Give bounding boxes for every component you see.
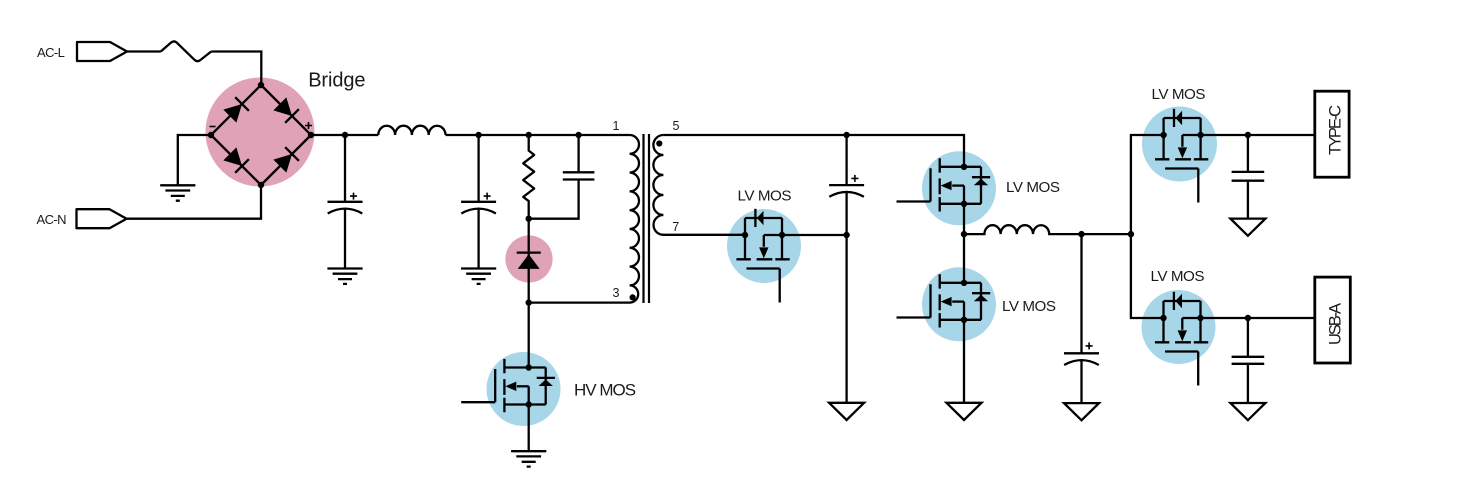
- svg-text:3: 3: [613, 286, 620, 300]
- wire rail to transformer pin 1: [446, 134, 630, 136]
- node USB-A cap: [1245, 315, 1251, 321]
- svg-text:HV MOS: HV MOS: [574, 380, 636, 399]
- node C4/sync source: [843, 232, 849, 238]
- transistor Q4 LV MOS (buck low side): [897, 274, 991, 327]
- svg-text:7: 7: [672, 220, 679, 234]
- wire bridge minus to ground: [178, 135, 211, 185]
- wire buck output cap: [1080, 234, 1082, 353]
- capacitor C3 (snubber): [529, 135, 595, 219]
- svg-text:AC-N: AC-N: [37, 212, 67, 227]
- node rail/C1: [342, 132, 348, 138]
- wire rail to C1: [344, 135, 346, 202]
- C4 plus mark: [851, 175, 858, 182]
- bridge plus mark: [305, 122, 312, 129]
- connector TYPE-C box: [1315, 91, 1349, 177]
- node Vout/output cap: [843, 132, 849, 138]
- node rail/C2: [475, 132, 481, 138]
- bridge node plus (right): [308, 132, 314, 138]
- inductor L2 (buck): [964, 225, 1131, 234]
- node rail/C3: [575, 132, 581, 138]
- TYPE-C load-switch LV MOSFET highlight circle: [1142, 107, 1217, 182]
- transformer secondary winding (pins 5-7): [653, 135, 745, 235]
- C1 plus mark: [350, 193, 357, 200]
- wire buck low side source to ground: [963, 320, 965, 403]
- transformer secondary phasing dot: [656, 140, 662, 146]
- node rail/R1: [526, 132, 532, 138]
- ground (triangle) under buck low side: [947, 403, 982, 420]
- bridge diode D4 (bottom node to right node): [273, 147, 299, 173]
- buck high-side LV MOSFET highlight circle: [922, 151, 996, 225]
- fuse F1: [161, 41, 211, 61]
- node clamp/transformer/HV-MOS: [526, 299, 532, 305]
- node TYPE-C cap: [1245, 132, 1251, 138]
- svg-text:LV MOS: LV MOS: [1006, 179, 1060, 196]
- capacitor C6 (TYPE-C): [1232, 135, 1265, 219]
- wire sync MOSFET to secondary ground node: [782, 234, 847, 236]
- wire C1 to ground: [344, 209, 346, 269]
- transformer primary winding (pins 1-3): [529, 135, 639, 303]
- sync-rect LV MOSFET highlight circle: [727, 209, 801, 283]
- svg-text:TYPE-C: TYPE-C: [1326, 105, 1344, 155]
- svg-text:LV MOS: LV MOS: [1152, 86, 1206, 103]
- svg-text:USB-A: USB-A: [1326, 303, 1344, 345]
- clamp diode highlight circle: [505, 235, 552, 282]
- wire rail to C2: [477, 135, 479, 202]
- bridge rectifier highlight circle: [206, 78, 315, 187]
- wire HV MOSFET source to ground: [528, 405, 530, 452]
- ground (triangle) under C5: [1064, 403, 1099, 420]
- ground (triangle) under C6: [1230, 219, 1265, 236]
- svg-text:LV MOS: LV MOS: [1002, 298, 1056, 315]
- wire TYPE-C rail: [1201, 134, 1315, 136]
- wire buck switch node: [963, 204, 965, 283]
- capacitor C5 (buck output electrolytic): [1064, 353, 1099, 365]
- connector USB-A box: [1315, 277, 1351, 363]
- wire USB-A rail: [1201, 317, 1315, 319]
- ground (triangle) under C4: [829, 403, 864, 420]
- connector AC-N: [77, 209, 127, 228]
- wire split to TYPE-C branch: [1131, 135, 1164, 234]
- node buck output cap: [1078, 231, 1084, 237]
- bridge diode D1 (left node to top node): [223, 97, 249, 123]
- inductor L1 (EMI filter): [378, 126, 445, 135]
- wire Vout to C4: [845, 135, 847, 185]
- node output split: [1128, 231, 1134, 237]
- diode D5 triangle: [518, 254, 540, 269]
- wire bridge bottom to AC-N: [127, 185, 261, 219]
- transformer primary phasing dot: [630, 294, 636, 300]
- svg-text:LV MOS: LV MOS: [1151, 268, 1205, 285]
- svg-text:1: 1: [613, 119, 620, 133]
- transistor Q2 LV MOS (sync rectifier): [736, 209, 789, 303]
- resistor R1 (snubber): [523, 135, 534, 219]
- capacitor C2 (electrolytic): [461, 202, 496, 214]
- USB-A load-switch LV MOSFET highlight circle: [1142, 290, 1216, 364]
- diode D5 (clamp) wire: [528, 219, 530, 303]
- ground (earth) under C2: [461, 269, 496, 284]
- node snubber junction: [526, 216, 532, 222]
- wire C4 to ground: [845, 192, 847, 403]
- capacitor C4 (output electrolytic): [829, 185, 864, 197]
- wire split to USB-A branch: [1131, 234, 1164, 318]
- ground (earth) under C1: [327, 269, 362, 284]
- wire C2 to ground: [477, 209, 479, 269]
- bridge node bottom: [258, 182, 264, 188]
- svg-text:AC-L: AC-L: [37, 45, 65, 60]
- transformer core: [644, 134, 650, 303]
- capacitor C1 (electrolytic): [328, 202, 363, 214]
- bridge diode D3 (left node to bottom node): [223, 147, 249, 173]
- diode D5 cathode bar: [517, 251, 541, 253]
- ground (triangle) under C7: [1230, 403, 1265, 420]
- svg-text:LV MOS: LV MOS: [738, 188, 792, 205]
- wire pin 5 to buck input: [663, 135, 964, 167]
- transistor Q1 HV MOS: [461, 359, 555, 412]
- C2 plus mark: [484, 193, 491, 200]
- bridge diode D2 (top node to right node): [273, 97, 299, 123]
- bridge node top: [258, 82, 264, 88]
- bridge rectifier diamond: [211, 85, 311, 185]
- wire bridge plus to filter: [311, 134, 378, 136]
- wire fuse to bridge top: [211, 52, 261, 86]
- HV MOSFET highlight circle: [487, 352, 561, 426]
- buck low-side LV MOSFET highlight circle: [922, 267, 996, 341]
- wire C5 to ground: [1080, 360, 1082, 403]
- ground (earth) at bridge minus: [160, 185, 195, 200]
- capacitor C7 (USB-A): [1232, 318, 1265, 403]
- bridge minus mark: [210, 126, 216, 128]
- ground (earth) under HV MOSFET: [511, 451, 546, 466]
- svg-text:Bridge: Bridge: [308, 70, 365, 92]
- wire clamp node to HV MOSFET drain: [528, 303, 530, 368]
- transistor Q6 LV MOS (USB-A load switch): [1155, 292, 1208, 386]
- transistor Q3 LV MOS (buck high side): [897, 158, 991, 211]
- transistor Q5 LV MOS (TYPE-C load switch): [1155, 109, 1208, 203]
- svg-text:5: 5: [673, 119, 680, 133]
- wire AC-L to fuse: [127, 50, 161, 52]
- bridge node minus (left): [208, 132, 214, 138]
- C5 plus mark: [1086, 342, 1093, 349]
- node buck switch: [961, 231, 967, 237]
- connector AC-L: [77, 42, 127, 61]
